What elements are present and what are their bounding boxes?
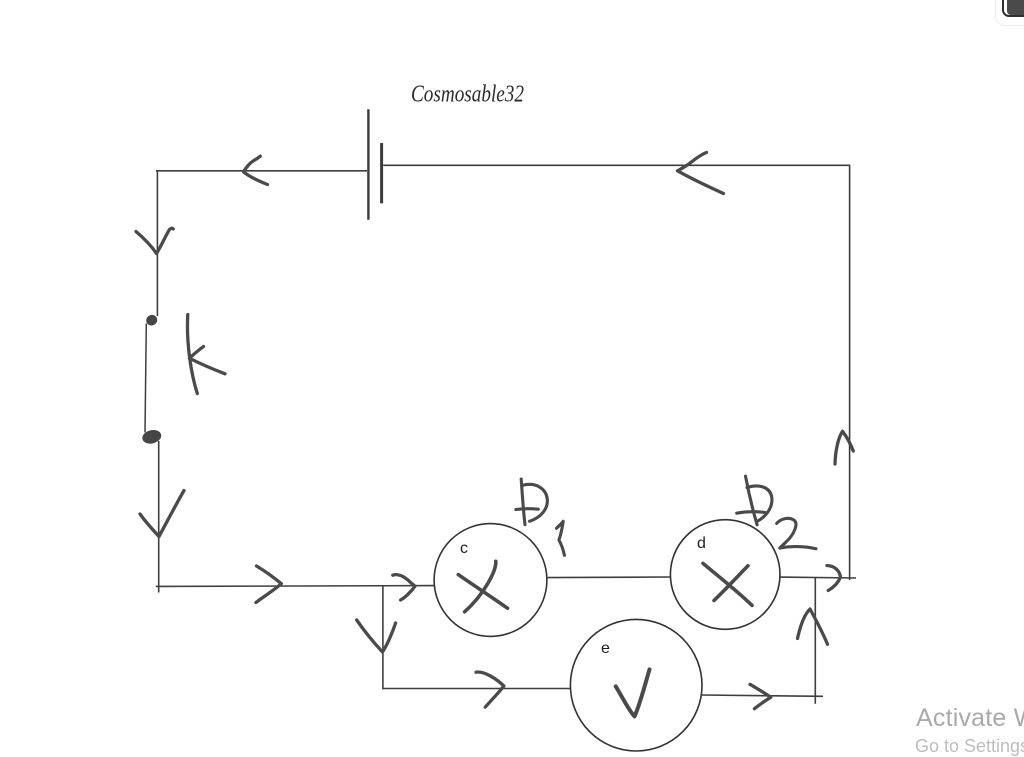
battery B1 long plate	[367, 109, 369, 220]
partially visible toolbar icon top right: outer card	[995, 0, 1024, 26]
wire left vertical upper segment	[156, 170, 158, 316]
Windows activation watermark line 2	[915, 736, 1024, 757]
label D2	[737, 476, 816, 549]
wire right vertical segment	[849, 165, 851, 580]
wire between lamp c and lamp d	[547, 576, 671, 579]
current arrow on bottom wire	[256, 566, 281, 603]
voltmeter e circle	[570, 619, 702, 751]
wire bottom-left segment	[156, 585, 435, 588]
current arrow on top-left wire	[244, 156, 268, 184]
lamp d circle	[670, 520, 780, 630]
toolbar icon dark outline	[1002, 0, 1024, 17]
voltmeter branch right vertical wire	[814, 578, 816, 704]
Windows activation watermark line 1	[916, 704, 1024, 733]
current arrow before lamp c	[393, 575, 415, 600]
current arrow after voltmeter	[750, 684, 771, 708]
current arrow on branch left vertical	[357, 620, 396, 652]
svg-text:d: d	[697, 535, 706, 552]
voltmeter V mark	[616, 669, 650, 716]
lamp c X filament	[458, 561, 507, 612]
toolbar icon dark fill	[1007, 0, 1024, 15]
current arrow on right wire	[835, 431, 853, 464]
lamp c circle	[434, 524, 547, 637]
current arrow at right junction	[827, 566, 841, 591]
wire top-right segment	[383, 164, 850, 166]
current arrow on left wire (lower)	[140, 491, 184, 537]
wire lamp d to right corner junction	[780, 576, 856, 579]
switch K blade wire	[145, 324, 146, 433]
current arrow on top-right wire	[678, 153, 724, 194]
node: switch top contact dot	[145, 313, 159, 327]
label D1	[516, 479, 565, 555]
voltmeter branch left vertical wire	[382, 586, 384, 689]
voltmeter branch bottom-right wire	[702, 695, 823, 696]
lamp d X filament	[703, 563, 752, 605]
svg-text:e: e	[601, 640, 610, 657]
voltmeter branch bottom-left wire	[382, 688, 570, 690]
current arrow on left wire (upper)	[136, 228, 173, 253]
wire left vertical lower segment	[158, 441, 160, 593]
svg-text:c: c	[460, 540, 468, 557]
battery B1 short plate	[380, 143, 383, 203]
switch label K	[187, 315, 225, 394]
wire top-left segment	[156, 170, 367, 172]
current arrow on branch bottom wire	[476, 672, 504, 707]
node: switch bottom contact blob	[141, 428, 163, 445]
current arrow on branch right vertical	[798, 609, 828, 644]
svg-text:Cosmosable32: Cosmosable32	[411, 82, 524, 108]
